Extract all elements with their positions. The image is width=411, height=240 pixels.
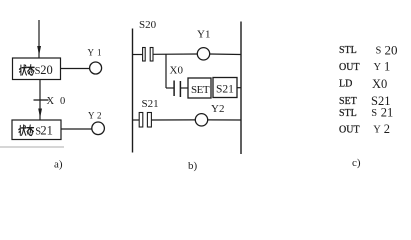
svg-text:1: 1 (97, 48, 102, 58)
right power rail (240, 22, 242, 155)
STL contact S20 bar1 (143, 48, 146, 62)
svg-text:S21: S21 (216, 84, 234, 96)
svg-text:X0: X0 (372, 77, 387, 91)
svg-text:Y: Y (374, 62, 382, 73)
wire: contact to coil Y2 (152, 119, 196, 121)
svg-text:Y: Y (88, 111, 95, 121)
coil Y2 (195, 114, 207, 126)
svg-text:S: S (376, 46, 382, 57)
svg-text:OUT: OUT (339, 62, 360, 73)
wire: coil Y1 to right rail (210, 53, 241, 56)
svg-text:Y1: Y1 (197, 29, 210, 41)
svg-text:20: 20 (385, 43, 398, 58)
label 状态 in S20 box (19, 65, 34, 75)
STL contact S20 bar2 (150, 48, 153, 62)
wire: rail to STL contact S20 (133, 54, 143, 56)
svg-text:Y: Y (88, 48, 95, 58)
output circle Y2 (92, 122, 105, 135)
svg-text:Y: Y (373, 125, 381, 136)
wire: contact to coil Y1 (153, 53, 197, 55)
svg-text:b): b) (188, 160, 198, 172)
svg-text:0: 0 (60, 96, 65, 107)
arrowhead into S20 (37, 46, 41, 56)
coil Y1 (197, 48, 209, 60)
wire: branch to X0 contact (166, 87, 174, 89)
STL contact S21 bar1 (139, 113, 143, 128)
state box S20 (13, 58, 61, 80)
wire: coil Y2 to right rail (208, 119, 241, 121)
wire: S21 box to right rail (237, 87, 241, 89)
svg-text:21: 21 (381, 106, 394, 120)
svg-text:S21: S21 (142, 98, 159, 110)
wire: S20 box to Y1 circle (61, 68, 90, 70)
svg-text:S20: S20 (139, 19, 157, 31)
svg-text:STL: STL (339, 45, 357, 56)
wire: S21 box to Y2 circle (61, 128, 92, 130)
svg-text:OUT: OUT (339, 125, 360, 136)
STL contact S21 bar2 (147, 113, 151, 128)
label 状态 in S21 box (19, 125, 34, 135)
svg-text:X: X (47, 96, 55, 107)
svg-text:Y2: Y2 (211, 103, 224, 115)
output circle Y1 (90, 62, 102, 74)
transition crossbar X0 (34, 99, 49, 101)
contact X0 plate2 (179, 81, 181, 97)
wire: rail to STL contact S21 (133, 119, 140, 121)
SET instruction box (188, 78, 211, 98)
left power rail (132, 29, 134, 153)
contact X0 plate1 (173, 81, 175, 97)
svg-text:S: S (371, 108, 377, 119)
svg-text:c): c) (352, 157, 361, 169)
wire: S20 box to S21 box (39, 80, 41, 120)
svg-text:SET: SET (191, 84, 210, 96)
wire: entry line into S20 (38, 20, 40, 58)
scan smudge under S21 box (0, 146, 64, 148)
svg-text:LD: LD (339, 79, 352, 90)
svg-text:2: 2 (384, 122, 390, 136)
wire: branch down to X0 (165, 54, 167, 88)
svg-text:SET: SET (339, 96, 357, 107)
state box S21 (12, 120, 61, 140)
S21 operand box (213, 78, 237, 98)
svg-text:X0: X0 (170, 65, 184, 77)
wire: X0 contact to SET box (181, 87, 188, 89)
svg-text:20: 20 (40, 63, 53, 77)
svg-text:1: 1 (384, 59, 390, 73)
svg-text:21: 21 (40, 124, 53, 138)
svg-text:2: 2 (97, 111, 102, 121)
arrowhead into S21 (38, 109, 42, 119)
svg-text:a): a) (54, 159, 63, 171)
svg-text:STL: STL (339, 108, 357, 119)
